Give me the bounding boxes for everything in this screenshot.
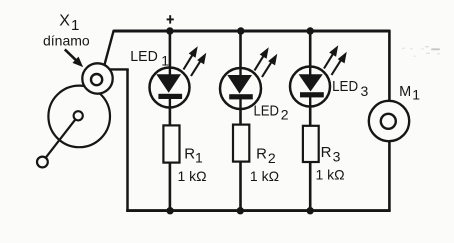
node top LED3	[307, 27, 314, 34]
svg-text:M: M	[399, 84, 411, 100]
resistor R1	[163, 125, 179, 162]
LED1	[150, 68, 190, 108]
dynamo crank pedal	[37, 157, 48, 168]
wire LED1 branch	[169, 31, 172, 211]
svg-text:3: 3	[361, 83, 369, 99]
LED1 light arrows	[184, 48, 206, 76]
svg-text:1 kΩ: 1 kΩ	[178, 168, 207, 184]
arrow pointing to dynamo	[65, 49, 82, 65]
svg-text:2: 2	[281, 107, 289, 123]
svg-text:1: 1	[412, 87, 420, 103]
node top LED1	[166, 27, 173, 34]
svg-text:1 kΩ: 1 kΩ	[316, 167, 345, 183]
motor M1 inner circle	[381, 114, 396, 129]
svg-text:1 kΩ: 1 kΩ	[250, 168, 279, 184]
LED2 light arrows	[255, 49, 277, 77]
svg-text:R: R	[321, 144, 332, 161]
dynamo roller wheel	[82, 63, 112, 93]
node bottom R1	[166, 207, 173, 214]
dynamo hub	[74, 111, 83, 120]
node top LED2	[237, 27, 244, 34]
motor M1 body	[369, 101, 409, 141]
dynamo roller inner ring	[91, 74, 102, 85]
LED3 light arrows	[324, 47, 346, 75]
svg-text:X: X	[59, 13, 70, 30]
wire diagonal from top bus to dynamo roller	[105, 30, 114, 64]
dynamo X1 drive wheel	[48, 86, 110, 148]
node bottom R2	[237, 207, 244, 214]
resistor R3	[303, 126, 319, 162]
svg-text:3: 3	[333, 149, 341, 165]
plus sign	[167, 15, 174, 23]
dynamo crank arm	[46, 119, 76, 157]
wire left vertical dynamo to bottom bus	[126, 69, 129, 212]
svg-text:1: 1	[195, 149, 203, 165]
svg-text:R: R	[256, 146, 267, 163]
scan smudge top right	[402, 46, 440, 57]
svg-text:LED: LED	[332, 78, 358, 95]
wire LED2 branch	[239, 31, 242, 211]
svg-text:R: R	[184, 146, 195, 163]
wire right vertical top bus to M1	[388, 30, 391, 102]
wire dynamo roller to left vertical	[110, 68, 129, 70]
resistor R2	[233, 125, 249, 162]
wire M1 to bottom bus	[388, 141, 391, 212]
node bottom R3	[307, 207, 314, 214]
wire bottom bus	[126, 209, 390, 212]
svg-text:LED: LED	[130, 48, 158, 65]
svg-text:dínamo: dínamo	[43, 32, 90, 48]
LED3	[290, 67, 330, 107]
svg-text:LED: LED	[254, 103, 280, 120]
svg-text:1: 1	[161, 52, 169, 68]
wire top bus	[113, 30, 390, 33]
LED2	[220, 68, 261, 109]
svg-text:2: 2	[268, 150, 276, 166]
wire LED3 branch	[309, 31, 312, 211]
